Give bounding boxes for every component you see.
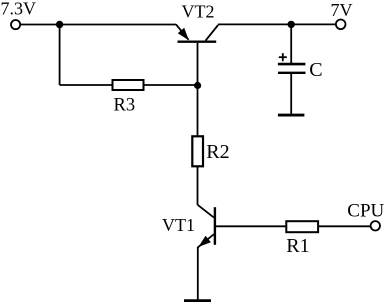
transistor VT1 base bar <box>214 207 216 245</box>
wire junction A down <box>59 25 61 86</box>
wire to R3 left <box>60 84 113 86</box>
wire input top <box>20 24 176 26</box>
wire VT1 emitter down <box>197 247 199 300</box>
transistor VT2 base bar <box>178 41 217 43</box>
terminal 7.3V <box>11 20 20 29</box>
transistor VT1 emitter <box>198 234 214 247</box>
ground VT1 <box>184 299 211 302</box>
svg-text:R2: R2 <box>206 141 229 163</box>
capacitor C bottom plate <box>278 72 306 74</box>
transistor VT1 base lead <box>216 225 286 227</box>
junction A <box>56 21 63 28</box>
wire VT2 base down to R2 <box>197 43 199 137</box>
resistor R2 <box>192 136 203 166</box>
terminal CPU <box>371 221 380 230</box>
wire junction C to capacitor <box>290 24 292 63</box>
wire output top <box>218 23 336 25</box>
svg-text:C: C <box>309 59 322 81</box>
wire R1 to CPU <box>318 225 370 227</box>
transistor VT2 emitter <box>176 24 189 40</box>
wire capacitor to ground <box>290 74 292 114</box>
wire R3 to junction B <box>144 84 198 86</box>
junction B <box>194 82 201 89</box>
resistor R3 <box>113 80 144 90</box>
capacitor C polarity plus <box>279 56 287 58</box>
ground capacitor <box>278 114 305 117</box>
wire R2 to VT1 collector <box>197 166 199 205</box>
svg-text:R3: R3 <box>114 96 136 116</box>
svg-text:CPU: CPU <box>347 201 384 222</box>
terminal 7V <box>336 20 346 30</box>
svg-text:VT2: VT2 <box>182 1 215 21</box>
svg-text:VT1: VT1 <box>162 215 195 235</box>
transistor VT2 collector <box>206 25 219 41</box>
svg-text:R1: R1 <box>286 235 309 257</box>
transistor VT2 emitter arrow <box>178 28 189 40</box>
svg-text:7.3V: 7.3V <box>1 0 37 18</box>
transistor VT1 collector <box>198 205 214 218</box>
junction C <box>288 21 295 28</box>
transistor VT1 emitter arrow <box>199 236 211 247</box>
resistor R1 <box>286 221 318 232</box>
svg-text:7V: 7V <box>331 0 353 20</box>
capacitor C top plate <box>278 63 306 66</box>
